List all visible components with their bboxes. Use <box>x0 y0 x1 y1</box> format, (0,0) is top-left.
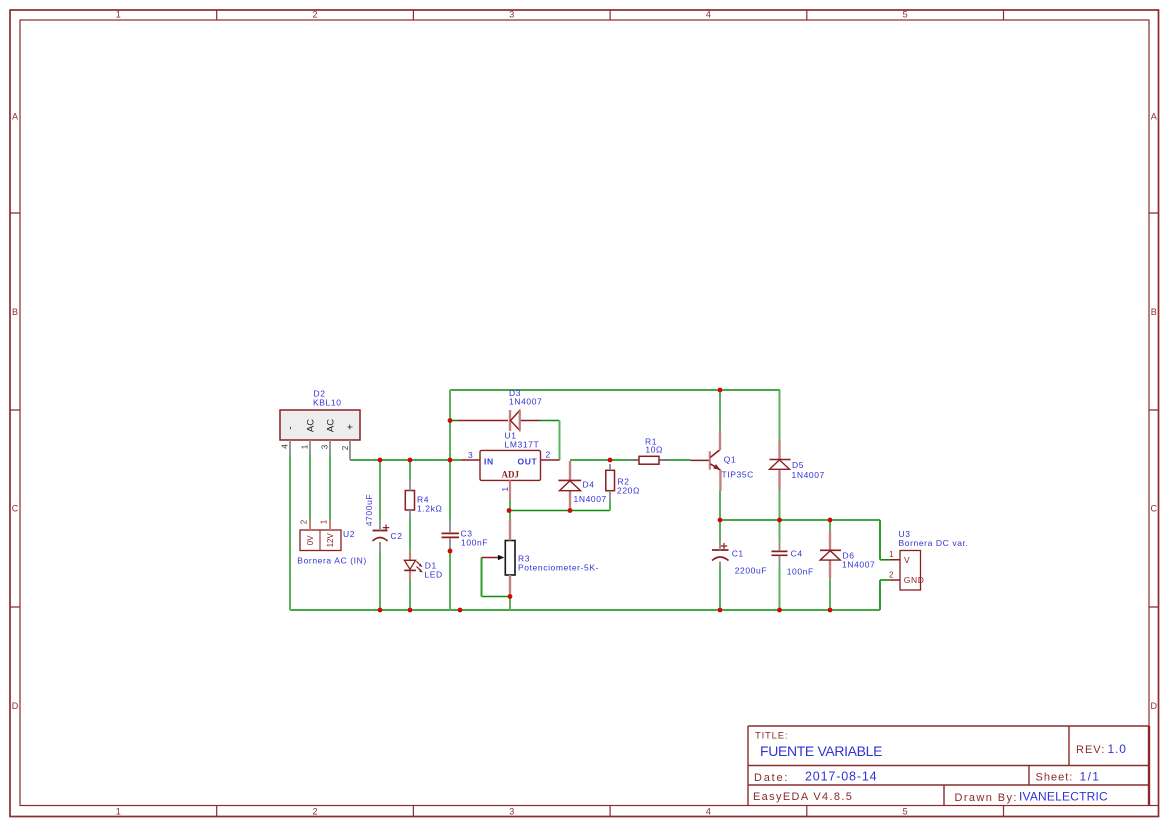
wire main node after bridge (y=460) <box>350 459 461 461</box>
wire vertical D6 column x=830 <box>829 520 831 610</box>
D2 pin stubs <box>290 440 350 460</box>
wire vertical D5/C4 column x=779.5 <box>779 390 781 610</box>
svg-text:1: 1 <box>320 519 329 524</box>
wire to U3 pin1 <box>880 559 890 561</box>
wire bottom ground rail y=610 <box>290 609 880 611</box>
junction dot (509,510.5) <box>507 508 512 513</box>
svg-text:Bornera AC (IN): Bornera AC (IN) <box>297 555 366 565</box>
wire vertical ADJ to R3 x=510 <box>509 511 511 611</box>
svg-text:D4: D4 <box>583 480 595 490</box>
U2 pin stubs <box>310 520 330 530</box>
wire top rail y=390 <box>450 389 780 391</box>
svg-text:5: 5 <box>903 806 908 816</box>
junction dot (380,610) <box>378 608 383 613</box>
svg-text:Date:: Date: <box>754 772 789 784</box>
svg-text:2: 2 <box>300 519 309 524</box>
junction dot (450,460) <box>448 458 453 463</box>
R1 pin stubs <box>631 459 670 461</box>
svg-text:B: B <box>12 307 18 317</box>
wire vertical to U3 x=880 <box>879 520 881 610</box>
wire vertical KBL10 pin1 to U2 x=310 <box>309 455 311 520</box>
svg-text:U2: U2 <box>343 529 355 539</box>
svg-text:REV:: REV: <box>1076 744 1105 756</box>
wire D3 right segment <box>540 420 560 422</box>
svg-text:TIP35C: TIP35C <box>722 470 754 480</box>
svg-text:1N4007: 1N4007 <box>842 559 875 569</box>
svg-text:C: C <box>1151 504 1158 514</box>
resistor R2 body <box>606 470 615 490</box>
svg-text:Drawn By:: Drawn By: <box>955 792 1018 804</box>
svg-text:C2: C2 <box>391 531 403 541</box>
svg-text:EasyEDA V4.8.5: EasyEDA V4.8.5 <box>753 791 853 803</box>
svg-text:3: 3 <box>468 450 473 460</box>
svg-text:AC: AC <box>326 419 337 432</box>
svg-text:1N4007: 1N4007 <box>792 470 825 480</box>
U3 pin stubs <box>890 560 900 580</box>
junction dot (720,390) <box>718 388 723 393</box>
resistor R1 body <box>639 456 659 464</box>
capacitor C1 polarized <box>712 549 729 551</box>
transistor Q1 TIP35C <box>691 459 710 461</box>
svg-text:C: C <box>12 504 19 514</box>
wire vertical R4/D1 column x=410 <box>409 460 411 610</box>
svg-text:2: 2 <box>546 449 551 459</box>
svg-text:2: 2 <box>312 10 317 20</box>
wire vertical R2 bottom bend x=610 <box>609 500 611 511</box>
svg-text:Sheet:: Sheet: <box>1036 772 1074 784</box>
resistor R4 body <box>405 491 414 511</box>
junction dot (610,460) <box>608 458 613 463</box>
title block grid <box>748 726 1149 806</box>
junction dot (380,460) <box>378 458 383 463</box>
svg-text:1: 1 <box>116 10 121 20</box>
D1 LED arrows <box>416 561 421 570</box>
svg-text:LED: LED <box>424 570 442 580</box>
svg-text:100nF: 100nF <box>787 566 814 576</box>
svg-text:1.2kΩ: 1.2kΩ <box>417 504 442 514</box>
junction dot (450,420.5) <box>448 418 453 423</box>
LED D1 <box>409 550 411 579</box>
svg-text:1.0: 1.0 <box>1108 742 1127 756</box>
junction dot (460,610) <box>458 608 463 613</box>
wire OUT node to R1 (y=460) <box>570 459 631 461</box>
diode D3 1N4007 <box>458 420 508 422</box>
bridge rectifier D2 KBL10 body <box>280 410 360 440</box>
svg-text:KBL10: KBL10 <box>313 398 342 408</box>
potentiometer R3 body <box>505 541 515 576</box>
wire vertical R3 wiper bend x=481.5 <box>481 558 483 597</box>
svg-text:1: 1 <box>889 550 894 559</box>
junction dot (720,610) <box>718 608 723 613</box>
svg-text:C1: C1 <box>732 549 744 559</box>
svg-text:12V: 12V <box>326 533 335 548</box>
diode D5 1N4007 <box>778 440 780 490</box>
junction dot (410,460) <box>408 458 413 463</box>
svg-text:1N4007: 1N4007 <box>574 494 607 504</box>
svg-text:FUENTE VARIABLE: FUENTE VARIABLE <box>760 743 882 759</box>
svg-text:3: 3 <box>509 10 514 20</box>
svg-text:4: 4 <box>706 806 711 816</box>
svg-text:2017-08-14: 2017-08-14 <box>805 770 877 784</box>
diode D6 1N4007 <box>829 530 831 578</box>
svg-text:V: V <box>904 555 910 565</box>
svg-text:4: 4 <box>706 10 711 20</box>
wire vertical KBL10 pin4 drop x=290 <box>289 455 291 610</box>
R4 pin stubs <box>409 481 411 519</box>
svg-text:GND: GND <box>904 575 925 585</box>
svg-text:5: 5 <box>903 10 908 20</box>
svg-text:2: 2 <box>312 806 317 816</box>
svg-text:ADJ: ADJ <box>502 469 520 479</box>
junction dot (510,596.5) <box>508 594 513 599</box>
wire R3 wiper row y=596.5 <box>482 596 511 598</box>
svg-text:2: 2 <box>889 570 894 579</box>
svg-text:IVANELECTRIC: IVANELECTRIC <box>1019 790 1108 804</box>
svg-text:Q1: Q1 <box>724 454 737 464</box>
wire vertical Q1 collector/emitter column x=720 <box>719 390 721 610</box>
svg-text:Bornera DC var.: Bornera DC var. <box>899 538 969 548</box>
svg-text:A: A <box>12 112 18 122</box>
U1 pin ADJ (1) <box>509 480 511 500</box>
svg-text:AC: AC <box>306 419 317 432</box>
junction dot (830,610) <box>828 608 833 613</box>
junction dot (830,520) <box>828 518 833 523</box>
svg-text:220Ω: 220Ω <box>617 485 640 495</box>
U1 pin OUT (2) <box>541 459 560 461</box>
capacitor C2 polarized <box>373 530 388 532</box>
junction dot (450,551) <box>448 549 453 554</box>
wire vertical D3 to OUT bend x=559.5 <box>559 421 561 461</box>
svg-text:LM317T: LM317T <box>505 440 540 450</box>
svg-text:B: B <box>1151 307 1157 317</box>
wire output node row y=520 <box>720 519 880 521</box>
wire ADJ row y=510.5 <box>509 510 610 512</box>
svg-text:Potenciometer-5K-: Potenciometer-5K- <box>518 562 599 572</box>
R3 pin stubs <box>509 520 511 597</box>
connector U3 body <box>900 551 921 591</box>
wire vertical C2 column x=380 <box>379 460 381 610</box>
junction dot (779.5,520) <box>777 518 782 523</box>
svg-text:4: 4 <box>281 444 290 449</box>
capacitor C3 <box>442 533 460 537</box>
svg-text:C4: C4 <box>791 549 803 559</box>
wire D3 left segment <box>450 420 458 422</box>
diode D4 1N4007 <box>569 461 571 480</box>
svg-text:2200uF: 2200uF <box>735 565 767 575</box>
svg-text:4700uF: 4700uF <box>364 494 374 526</box>
R2 pin stubs <box>609 464 611 500</box>
svg-text:3: 3 <box>509 806 514 816</box>
svg-text:OUT: OUT <box>518 456 538 466</box>
svg-text:100nF: 100nF <box>461 538 488 548</box>
svg-text:-: - <box>286 426 297 429</box>
svg-text:1: 1 <box>500 486 510 491</box>
wire vertical input column x=450 <box>449 390 451 610</box>
capacitor C4 <box>772 551 788 555</box>
svg-text:TITLE:: TITLE: <box>755 731 788 742</box>
junction dot (570,510.5) <box>568 508 573 513</box>
svg-text:10Ω: 10Ω <box>645 445 663 455</box>
svg-text:IN: IN <box>484 456 494 466</box>
junction dot (410,610) <box>408 608 413 613</box>
svg-text:D: D <box>12 701 19 711</box>
wire to U3 pin2 <box>880 579 890 581</box>
svg-text:1: 1 <box>116 806 121 816</box>
svg-text:0V: 0V <box>306 535 315 545</box>
connector U2 body <box>300 530 341 551</box>
svg-text:+: + <box>346 424 357 430</box>
svg-text:2: 2 <box>341 445 350 450</box>
svg-text:A: A <box>1151 112 1157 122</box>
svg-text:3: 3 <box>321 444 330 449</box>
U1 pin IN (3) <box>461 459 480 461</box>
svg-text:1/1: 1/1 <box>1080 770 1101 784</box>
junction dot (720,520) <box>718 518 723 523</box>
svg-text:D: D <box>1151 701 1158 711</box>
wire R1 to Q1 base <box>670 459 691 461</box>
svg-text:D5: D5 <box>792 460 804 470</box>
regulator U1 LM317T body <box>480 450 541 480</box>
junction dot (779.5,610) <box>777 608 782 613</box>
R3 wiper arrow <box>482 557 499 559</box>
wire vertical KBL10 pin3 to U2 x=330 <box>329 455 331 520</box>
svg-text:1: 1 <box>301 444 310 449</box>
svg-text:1N4007: 1N4007 <box>509 397 542 407</box>
